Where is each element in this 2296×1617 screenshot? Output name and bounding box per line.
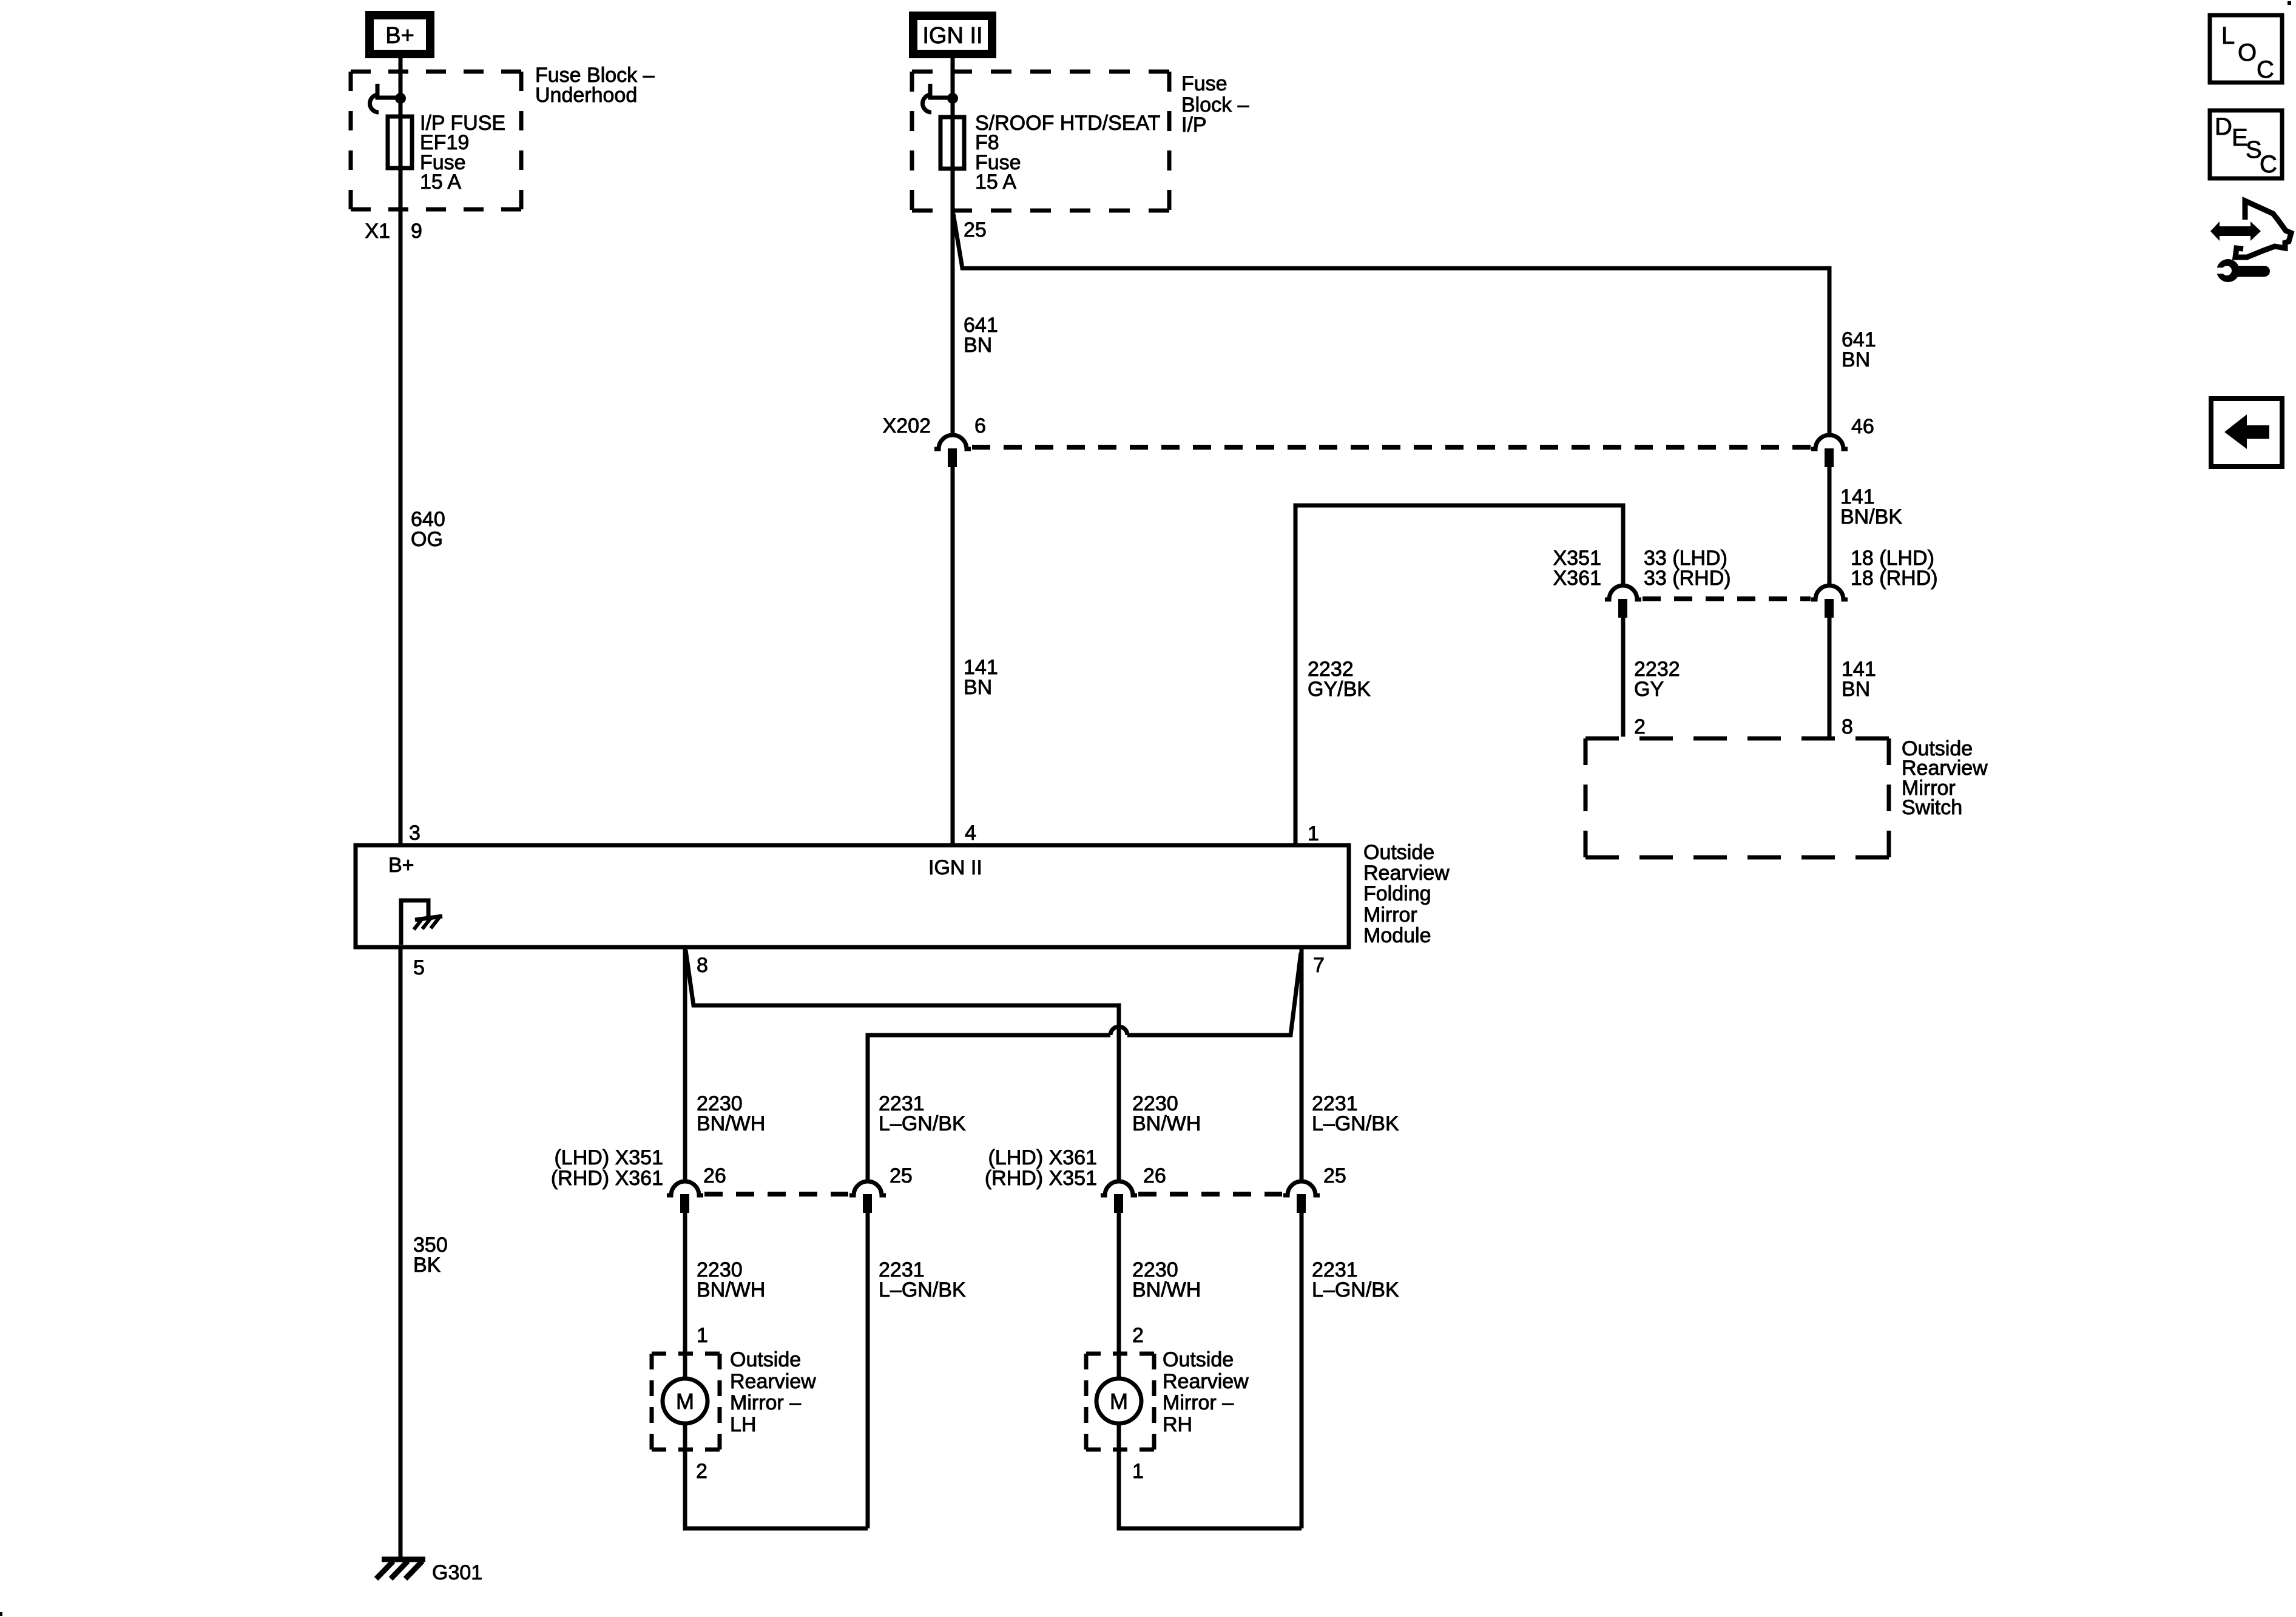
wire 2230 BN/WH from module pin 8 (left drop) — [683, 949, 687, 1180]
wire 141 BN to switch pin 8 — [1828, 618, 1832, 737]
wire 2232 GY/BK from module pin 1 up and right — [1295, 505, 1623, 843]
fuse holder clip — [930, 84, 949, 98]
svg-text:Rearview: Rearview — [1363, 862, 1450, 885]
svg-text:B+: B+ — [388, 854, 414, 877]
LOC icon box — [2210, 15, 2282, 83]
svg-text:25: 25 — [964, 218, 987, 241]
svg-text:(RHD) X351: (RHD) X351 — [985, 1167, 1097, 1190]
svg-text:Rearview: Rearview — [1163, 1370, 1249, 1393]
svg-text:Outside: Outside — [1363, 841, 1434, 864]
svg-text:X202: X202 — [883, 414, 931, 437]
svg-text:BN/WH: BN/WH — [1132, 1278, 1201, 1301]
DESC icon box — [2210, 110, 2282, 178]
svg-text:BN: BN — [964, 334, 992, 357]
svg-text:15 A: 15 A — [420, 170, 461, 194]
svg-text:Underhood: Underhood — [535, 84, 637, 107]
svg-text:GY: GY — [1634, 678, 1664, 701]
svg-text:25: 25 — [890, 1164, 913, 1187]
svg-text:26: 26 — [1143, 1164, 1166, 1187]
svg-text:9: 9 — [411, 220, 422, 243]
wire 350 BK from module pin 5 to G301 — [399, 949, 403, 1558]
svg-text:(LHD) X361: (LHD) X361 — [988, 1146, 1097, 1169]
svg-text:1: 1 — [697, 1324, 708, 1347]
svg-text:5: 5 — [413, 956, 425, 979]
svg-text:(LHD) X351: (LHD) X351 — [554, 1146, 663, 1169]
svg-text:BN: BN — [1842, 348, 1870, 371]
svg-text:Mirror: Mirror — [1363, 903, 1417, 927]
svg-text:GY/BK: GY/BK — [1308, 678, 1371, 701]
svg-text:BN: BN — [1842, 678, 1870, 701]
svg-text:Mirror –: Mirror – — [730, 1391, 801, 1414]
svg-text:3: 3 — [409, 822, 420, 845]
svg-text:8: 8 — [1842, 715, 1853, 738]
svg-text:Switch: Switch — [1902, 796, 1962, 819]
node IGN II power label box — [913, 16, 992, 54]
junction dot in I/P fuse block — [947, 93, 958, 104]
svg-text:4: 4 — [965, 822, 976, 845]
svg-text:Rearview: Rearview — [730, 1370, 816, 1393]
svg-text:C: C — [2260, 151, 2277, 178]
motor RH dashed box — [1086, 1352, 1154, 1356]
dashed harness line RH — [1138, 1192, 1282, 1197]
svg-text:M: M — [676, 1389, 694, 1414]
svg-text:BK: BK — [413, 1254, 441, 1277]
svg-text:8: 8 — [697, 954, 708, 977]
ground G301 — [376, 1559, 425, 1579]
connector RH pin 25 — [1283, 1181, 1320, 1213]
svg-text:26: 26 — [703, 1164, 726, 1187]
wire LH motor return loop — [685, 1451, 868, 1528]
svg-text:6: 6 — [974, 414, 986, 437]
svg-text:Outside: Outside — [730, 1348, 801, 1371]
svg-text:46: 46 — [1851, 415, 1874, 438]
svg-text:18 (RHD): 18 (RHD) — [1851, 567, 1938, 590]
svg-text:X1: X1 — [365, 220, 390, 243]
svg-text:2: 2 — [696, 1460, 707, 1483]
svg-text:Fuse: Fuse — [1181, 72, 1227, 95]
connector X202 pin 46 — [1811, 435, 1848, 467]
wire branch pin 7 to left drop with hop — [868, 953, 1301, 1180]
svg-text:L–GN/BK: L–GN/BK — [879, 1278, 966, 1301]
svg-text:I/P: I/P — [1181, 113, 1207, 137]
outside rearview mirror switch dashed box — [1585, 737, 1889, 741]
svg-text:Outside: Outside — [1163, 1348, 1234, 1371]
back arrow icon box — [2211, 399, 2282, 467]
motor M LH — [663, 1352, 707, 1451]
svg-text:25: 25 — [1323, 1164, 1346, 1187]
motor LH dashed box — [652, 1352, 720, 1356]
svg-text:BN/WH: BN/WH — [697, 1112, 765, 1135]
svg-text:BN/BK: BN/BK — [1840, 505, 1902, 528]
svg-text:Mirror –: Mirror – — [1163, 1391, 1234, 1414]
wire branch to right (641 BN) — [953, 214, 1829, 434]
svg-text:15 A: 15 A — [975, 170, 1016, 194]
double arrow — [2210, 221, 2261, 241]
module internal ground — [401, 900, 442, 945]
svg-text:D: D — [2215, 113, 2232, 140]
wire 141 BN from X202-6 to module pin 4 — [951, 467, 955, 843]
motor M RH — [1096, 1352, 1141, 1451]
svg-text:L: L — [2221, 22, 2235, 49]
dashed harness line X202 — [972, 445, 1812, 450]
fuse block I/P dashed box — [912, 70, 1169, 74]
svg-text:LH: LH — [730, 1413, 756, 1436]
svg-text:S/ROOF HTD/SEAT: S/ROOF HTD/SEAT — [975, 112, 1160, 135]
wire 141 BN/BK from X202-46 down — [1828, 467, 1832, 584]
panel outline — [2235, 201, 2291, 257]
page artifact dots — [2288, 1, 2291, 5]
svg-text:IGN II: IGN II — [928, 856, 982, 879]
svg-text:BN: BN — [964, 676, 992, 699]
svg-text:IGN II: IGN II — [922, 23, 982, 49]
connector LH pin 26 — [667, 1181, 703, 1213]
svg-text:C: C — [2257, 56, 2274, 83]
wire branch pin 8 to right drop — [686, 950, 1119, 1180]
wrench — [2217, 259, 2240, 282]
fuse EF19 symbol — [388, 116, 412, 168]
svg-text:(RHD) X361: (RHD) X361 — [551, 1167, 663, 1190]
svg-text:7: 7 — [1313, 954, 1325, 977]
node B+ power label box — [370, 15, 430, 54]
dashed harness line LH — [704, 1192, 848, 1197]
svg-text:BN/WH: BN/WH — [1132, 1112, 1201, 1135]
svg-text:O: O — [2238, 39, 2257, 66]
svg-text:L–GN/BK: L–GN/BK — [879, 1112, 966, 1135]
wires below connectors — [683, 1213, 687, 1352]
connector X351/X361 pin 18 — [1811, 586, 1848, 618]
svg-text:33 (RHD): 33 (RHD) — [1644, 567, 1731, 590]
wire hop over — [1110, 1027, 1127, 1035]
junction dot in fuse block — [395, 93, 406, 104]
svg-text:L–GN/BK: L–GN/BK — [1312, 1278, 1399, 1301]
svg-text:2: 2 — [1132, 1324, 1144, 1347]
fuse F8 symbol — [940, 117, 964, 169]
wire 2232 GY to switch pin 2 — [1621, 618, 1626, 737]
dashed harness line X351/X361 — [1643, 596, 1811, 601]
svg-text:Module: Module — [1363, 924, 1431, 947]
connector RH pin 26 — [1101, 1181, 1137, 1213]
svg-text:1: 1 — [1132, 1460, 1144, 1483]
module box: outside rearview folding mirror module — [356, 845, 1349, 947]
svg-text:G301: G301 — [432, 1561, 482, 1584]
svg-text:OG: OG — [411, 528, 443, 551]
wire 640 OG from B+ to module pin 3 — [399, 58, 403, 843]
wire 641 BN from IGN II down — [951, 58, 955, 434]
svg-text:M: M — [1110, 1389, 1128, 1414]
svg-text:B+: B+ — [385, 23, 414, 49]
svg-text:X361: X361 — [1553, 567, 1601, 590]
wire RH motor return loop — [1119, 1451, 1302, 1528]
svg-text:BN/WH: BN/WH — [697, 1278, 765, 1301]
connector X202 pin 6 — [934, 435, 971, 467]
svg-text:2: 2 — [1634, 715, 1646, 738]
svg-text:RH: RH — [1163, 1413, 1192, 1436]
svg-text:L–GN/BK: L–GN/BK — [1312, 1112, 1399, 1135]
fuse holder clip — [377, 84, 396, 98]
svg-text:1: 1 — [1308, 822, 1319, 845]
fuse block underhood dashed box — [351, 70, 521, 74]
connector X351/X361 pin 33 — [1605, 586, 1641, 618]
svg-text:Folding: Folding — [1363, 882, 1431, 905]
connector LH pin 25 — [849, 1181, 886, 1213]
wire 2231 L-GN/BK from module pin 7 (right drop) — [1300, 949, 1304, 1180]
service icon: double arrow, panel outline, wrench — [2210, 201, 2291, 282]
